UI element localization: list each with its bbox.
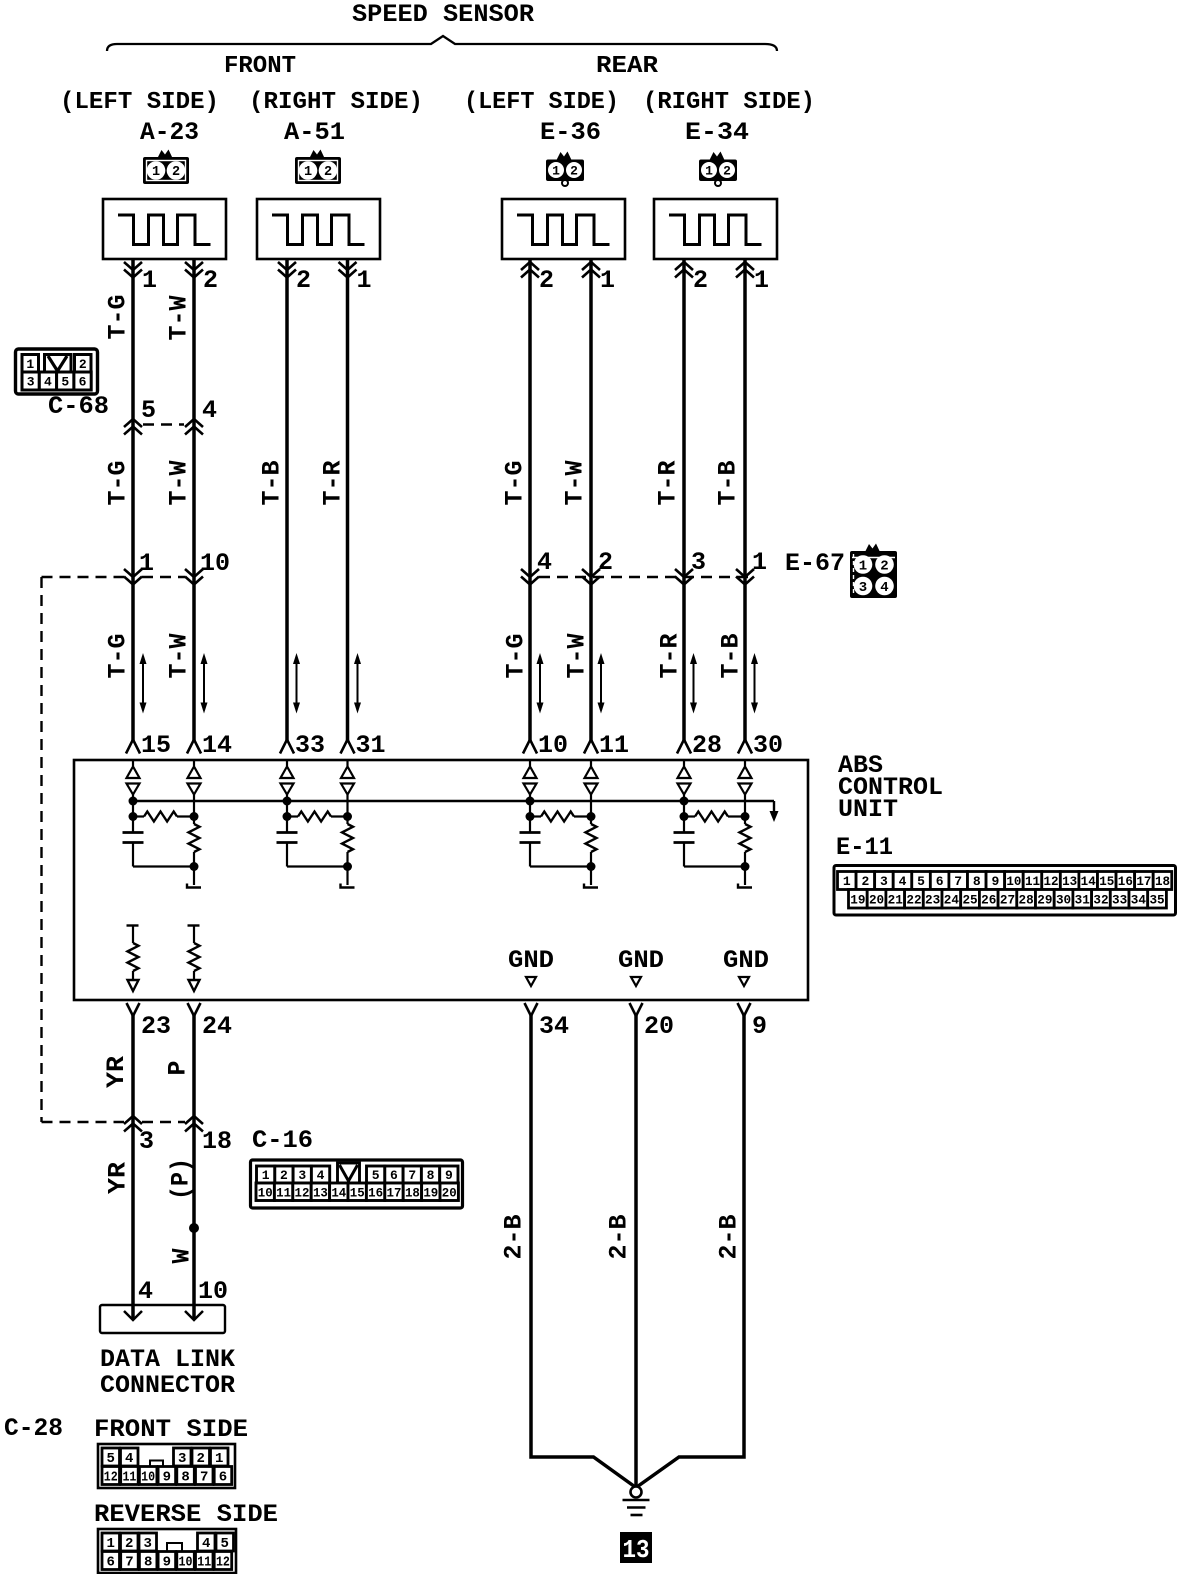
wire 2-B pin9 — [638, 1015, 745, 1487]
svg-text:2-B: 2-B — [500, 1215, 529, 1260]
svg-text:4: 4 — [138, 1277, 153, 1306]
svg-text:10: 10 — [179, 1555, 193, 1571]
ABS pin 23 exit fork — [127, 1003, 140, 1016]
ABS input triangles pair 2 — [286, 760, 288, 766]
svg-text:21: 21 — [888, 892, 903, 907]
ABS input triangles pair 4 — [683, 760, 685, 766]
svg-text:W: W — [168, 1249, 197, 1264]
pin arrow E-34 pin2 — [675, 262, 693, 270]
svg-text:9: 9 — [991, 874, 999, 889]
ground node — [631, 1487, 642, 1498]
svg-text:35: 35 — [1149, 892, 1164, 907]
svg-text:14: 14 — [331, 1185, 346, 1200]
svg-text:1: 1 — [754, 266, 769, 295]
connector icon E-36 — [557, 152, 572, 161]
svg-text:24: 24 — [944, 892, 959, 907]
svg-text:34: 34 — [1131, 892, 1146, 907]
svg-text:(RIGHT SIDE): (RIGHT SIDE) — [643, 89, 815, 116]
svg-text:7: 7 — [954, 874, 962, 889]
svg-text:4: 4 — [537, 548, 552, 577]
dashed vertical harness line — [40, 577, 42, 1122]
dashed link E-67 pins — [539, 576, 754, 578]
svg-text:9: 9 — [752, 1012, 767, 1041]
svg-text:1: 1 — [26, 357, 34, 372]
svg-text:16: 16 — [1118, 874, 1133, 889]
svg-text:7: 7 — [408, 1168, 416, 1183]
svg-text:1: 1 — [142, 266, 157, 295]
svg-text:4: 4 — [899, 874, 907, 889]
ABS filter capacitor pair 3 — [529, 817, 531, 833]
svg-text:5: 5 — [107, 1451, 115, 1467]
svg-text:19: 19 — [850, 892, 865, 907]
svg-text:8: 8 — [144, 1555, 152, 1571]
svg-text:T-B: T-B — [717, 634, 746, 679]
svg-text:11: 11 — [122, 1470, 136, 1486]
svg-text:5: 5 — [917, 874, 925, 889]
svg-text:YR: YR — [104, 1162, 133, 1194]
svg-text:2: 2 — [296, 266, 311, 295]
svg-text:E-67: E-67 — [785, 549, 845, 578]
svg-text:34: 34 — [539, 1012, 569, 1041]
svg-text:3: 3 — [178, 1451, 186, 1467]
ABS pin 30 entry fork — [738, 740, 752, 754]
svg-text:13: 13 — [1062, 874, 1077, 889]
svg-text:2: 2 — [203, 266, 218, 295]
svg-text:T-W: T-W — [165, 461, 194, 506]
svg-text:23: 23 — [925, 892, 940, 907]
svg-text:3: 3 — [139, 1127, 154, 1156]
svg-text:31: 31 — [1075, 892, 1090, 907]
svg-text:2: 2 — [880, 559, 888, 575]
svg-text:C-68: C-68 — [48, 392, 109, 421]
svg-text:26: 26 — [981, 892, 996, 907]
ABS pin 33 entry fork — [280, 740, 294, 754]
svg-text:15: 15 — [1099, 874, 1114, 889]
svg-text:33: 33 — [295, 731, 325, 760]
pin arrow A-51 pin2 — [278, 262, 296, 270]
junction chevron pin3 — [124, 1116, 142, 1124]
svg-text:12: 12 — [295, 1185, 310, 1200]
svg-text:T-B: T-B — [714, 461, 743, 506]
svg-text:12: 12 — [104, 1470, 118, 1486]
svg-text:11: 11 — [599, 731, 629, 760]
svg-text:E-36: E-36 — [540, 118, 601, 147]
svg-text:30: 30 — [1056, 892, 1071, 907]
ABS input triangles pair 3 — [529, 760, 531, 766]
svg-text:11: 11 — [197, 1555, 211, 1571]
svg-text:18: 18 — [405, 1185, 420, 1200]
ABS filter capacitor pair 4 — [683, 817, 685, 833]
svg-text:16: 16 — [368, 1185, 383, 1200]
ABS pin 9 exit fork — [738, 1003, 751, 1016]
svg-text:15: 15 — [141, 731, 171, 760]
svg-text:33: 33 — [1112, 892, 1127, 907]
svg-text:T-R: T-R — [656, 634, 685, 679]
ABS load resistor pair 4 — [744, 817, 746, 825]
arrow into DLC pin4 — [124, 1311, 142, 1320]
svg-text:8: 8 — [181, 1470, 189, 1486]
svg-text:17: 17 — [1136, 874, 1151, 889]
svg-text:P: P — [164, 1061, 193, 1076]
svg-text:2: 2 — [172, 165, 180, 180]
ABS pin 10 entry fork — [523, 740, 537, 754]
svg-text:2: 2 — [79, 357, 87, 372]
pin arrow E-36 pin2 — [521, 262, 539, 270]
svg-text:1: 1 — [552, 164, 560, 179]
svg-text:A-23: A-23 — [140, 118, 199, 147]
svg-text:4: 4 — [202, 396, 217, 425]
ground id 13 — [620, 1532, 652, 1563]
signal arrow 4 — [357, 661, 359, 706]
svg-text:3: 3 — [144, 1536, 152, 1552]
svg-text:CONNECTOR: CONNECTOR — [100, 1371, 235, 1400]
svg-text:A-51: A-51 — [284, 118, 345, 147]
junction chevrons pin5 front-left — [124, 419, 142, 427]
svg-text:6: 6 — [390, 1168, 398, 1183]
svg-text:5: 5 — [221, 1536, 229, 1552]
svg-text:T-W: T-W — [563, 634, 592, 679]
ABS filter resistor pair 1 — [129, 812, 138, 821]
svg-text:28: 28 — [1019, 892, 1034, 907]
svg-text:20: 20 — [869, 892, 884, 907]
pin arrow A-23 pin1 — [124, 262, 142, 270]
ABS network bottom link pair 3 — [530, 865, 591, 867]
ABS control unit box E-11 — [74, 760, 808, 1000]
junction chevron pin4 rear — [521, 569, 539, 577]
svg-text:SPEED SENSOR: SPEED SENSOR — [352, 0, 534, 29]
svg-text:14: 14 — [1081, 874, 1096, 889]
svg-text:REAR: REAR — [596, 53, 659, 80]
wire T-B front-right — [285, 259, 289, 741]
svg-text:13: 13 — [313, 1185, 328, 1200]
svg-text:GND: GND — [618, 946, 664, 975]
svg-text:12: 12 — [1044, 874, 1059, 889]
pin arrow A-23 pin2 — [185, 262, 203, 270]
svg-text:2: 2 — [125, 1536, 133, 1552]
svg-text:GND: GND — [508, 946, 554, 975]
svg-text:REVERSE SIDE: REVERSE SIDE — [94, 1500, 278, 1529]
ABS filter resistor pair 4 — [680, 812, 689, 821]
svg-text:3: 3 — [880, 874, 888, 889]
svg-text:28: 28 — [692, 731, 722, 760]
svg-text:4: 4 — [317, 1168, 325, 1183]
svg-text:9: 9 — [163, 1470, 171, 1486]
dashed line into C-16 row — [42, 1121, 125, 1123]
svg-text:1: 1 — [843, 874, 851, 889]
speed sensor front-left A-23 — [103, 199, 226, 259]
signal arrow 1 — [142, 661, 144, 706]
svg-text:3: 3 — [27, 375, 35, 390]
signal arrow 5 — [539, 661, 541, 706]
svg-text:T-G: T-G — [104, 295, 133, 340]
svg-text:(LEFT SIDE): (LEFT SIDE) — [60, 89, 219, 116]
svg-text:25: 25 — [962, 892, 977, 907]
svg-text:T-B: T-B — [258, 461, 287, 506]
svg-text:E-11: E-11 — [836, 833, 893, 862]
svg-text:32: 32 — [1093, 892, 1108, 907]
svg-text:2: 2 — [861, 874, 869, 889]
signal arrow 6 — [600, 661, 602, 706]
svg-text:20: 20 — [644, 1012, 674, 1041]
svg-text:7: 7 — [200, 1470, 208, 1486]
svg-text:5: 5 — [372, 1168, 380, 1183]
svg-text:FRONT: FRONT — [224, 53, 296, 80]
connector C-16 icon — [251, 1160, 463, 1208]
connector C-68 icon — [16, 349, 98, 394]
svg-text:2-B: 2-B — [715, 1215, 744, 1260]
svg-text:11: 11 — [1025, 874, 1040, 889]
svg-text:7: 7 — [125, 1555, 133, 1571]
svg-text:3: 3 — [298, 1168, 306, 1183]
ABS pin 20 exit fork — [630, 1003, 643, 1016]
svg-text:1: 1 — [859, 559, 867, 575]
bracket over sensor group — [107, 36, 777, 51]
svg-text:10: 10 — [1006, 874, 1021, 889]
wire T-W front-left — [192, 259, 196, 741]
svg-text:1: 1 — [304, 165, 312, 180]
svg-text:9: 9 — [163, 1555, 171, 1571]
svg-text:UNIT: UNIT — [838, 795, 898, 824]
svg-text:2: 2 — [570, 164, 578, 179]
connector E-67 icon — [865, 544, 880, 553]
svg-text:11: 11 — [276, 1185, 291, 1200]
wire splice dot — [189, 1223, 199, 1233]
ABS bus junction dot pair 4 — [680, 797, 689, 806]
svg-text:30: 30 — [753, 731, 783, 760]
svg-text:T-G: T-G — [104, 634, 133, 679]
svg-text:4: 4 — [202, 1536, 210, 1552]
signal arrow 8 — [754, 661, 756, 706]
ABS filter resistor pair 3 — [526, 812, 535, 821]
svg-text:9: 9 — [445, 1168, 453, 1183]
svg-text:C-16: C-16 — [252, 1126, 313, 1155]
wire T-B rear-right — [743, 258, 747, 741]
connector icon E-34 — [710, 152, 725, 161]
ABS pin 28 entry fork — [677, 740, 691, 754]
svg-text:6: 6 — [219, 1470, 227, 1486]
svg-text:1: 1 — [215, 1451, 223, 1467]
ABS bus junction dot pair 3 — [526, 797, 535, 806]
svg-text:C-28: C-28 — [4, 1414, 63, 1443]
svg-text:20: 20 — [442, 1185, 457, 1200]
svg-text:10: 10 — [198, 1277, 228, 1306]
pin arrow A-51 pin1 — [339, 262, 357, 270]
junction chevron pin10 front-left — [185, 569, 203, 577]
connector icon A-51 — [310, 150, 325, 159]
ABS pull resistor 1 — [127, 924, 139, 926]
ABS load resistor pair 2 — [346, 817, 348, 825]
ABS filter capacitor pair 1 — [132, 817, 134, 833]
svg-text:13: 13 — [623, 1535, 650, 1565]
wire T-W rear-left — [589, 258, 593, 741]
svg-text:4: 4 — [125, 1451, 133, 1467]
ABS pull resistor 2 — [188, 924, 200, 926]
svg-text:27: 27 — [1000, 892, 1015, 907]
svg-text:24: 24 — [202, 1012, 232, 1041]
svg-text:2: 2 — [324, 165, 332, 180]
ABS bus junction dot pair 1 — [129, 797, 138, 806]
pin arrow E-36 pin1 — [582, 262, 600, 270]
ABS input triangles pair 1 — [132, 760, 134, 766]
dashed link C-68 pins — [143, 423, 184, 425]
junction chevron pin1 front-left — [124, 569, 142, 577]
svg-text:2: 2 — [598, 548, 613, 577]
svg-text:1: 1 — [357, 266, 372, 295]
svg-text:2: 2 — [280, 1168, 288, 1183]
svg-text:29: 29 — [1037, 892, 1052, 907]
svg-text:T-G: T-G — [501, 461, 530, 506]
svg-text:DATA LINK: DATA LINK — [100, 1345, 235, 1374]
junction chevron pin1 rear — [736, 569, 754, 577]
svg-text:E-34: E-34 — [685, 118, 749, 147]
svg-text:6: 6 — [936, 874, 944, 889]
svg-text:10: 10 — [141, 1470, 155, 1486]
connector C-28 reverse side — [98, 1529, 236, 1573]
junction chevrons pin4 front-left — [185, 419, 203, 427]
ABS load resistor pair 1 — [193, 817, 195, 825]
svg-text:FRONT SIDE: FRONT SIDE — [94, 1415, 248, 1444]
svg-text:1: 1 — [752, 548, 767, 577]
svg-text:10: 10 — [258, 1185, 273, 1200]
wire 2-B pin34 — [531, 1015, 635, 1487]
ABS pin 34 exit fork — [525, 1003, 538, 1016]
svg-text:12: 12 — [216, 1555, 230, 1571]
svg-text:(RIGHT SIDE): (RIGHT SIDE) — [249, 89, 423, 116]
svg-text:19: 19 — [423, 1185, 438, 1200]
arrow into DLC pin10 — [185, 1311, 203, 1320]
ABS pin 31 entry fork — [341, 740, 355, 754]
junction chevron pin3 rear — [675, 569, 693, 577]
svg-text:31: 31 — [356, 731, 386, 760]
svg-text:2: 2 — [723, 164, 731, 179]
svg-text:1: 1 — [262, 1168, 270, 1183]
wire T-R rear-right — [682, 258, 686, 741]
svg-text:2: 2 — [693, 266, 708, 295]
svg-text:4: 4 — [880, 580, 888, 596]
signal arrow 3 — [296, 661, 298, 706]
signal arrow 7 — [693, 661, 695, 706]
svg-text:6: 6 — [107, 1555, 115, 1571]
svg-text:10: 10 — [538, 731, 568, 760]
svg-text:22: 22 — [906, 892, 921, 907]
svg-text:2: 2 — [197, 1451, 205, 1467]
svg-text:YR: YR — [102, 1056, 131, 1088]
pin arrow E-34 pin1 — [736, 262, 754, 270]
svg-text:2: 2 — [539, 266, 554, 295]
svg-text:T-R: T-R — [654, 461, 683, 506]
svg-text:5: 5 — [61, 375, 69, 390]
svg-text:T-G: T-G — [502, 634, 531, 679]
data link connector box — [100, 1305, 225, 1333]
svg-text:GND: GND — [723, 946, 769, 975]
junction chevron pin2 rear — [582, 569, 600, 577]
speed sensor rear-right E-34 — [654, 199, 777, 259]
svg-text:1: 1 — [139, 549, 154, 578]
svg-text:18: 18 — [1155, 874, 1170, 889]
svg-text:10: 10 — [200, 549, 230, 578]
svg-text:8: 8 — [427, 1168, 435, 1183]
dashed line to harness left — [42, 576, 125, 578]
svg-text:1: 1 — [600, 266, 615, 295]
svg-text:(LEFT SIDE): (LEFT SIDE) — [464, 89, 619, 116]
connector icon A-23 — [158, 150, 173, 159]
junction chevron pin18 — [185, 1116, 203, 1124]
svg-text:8: 8 — [973, 874, 981, 889]
svg-text:T-G: T-G — [104, 461, 133, 506]
wire YR below ABS — [131, 1015, 135, 1319]
svg-text:15: 15 — [350, 1185, 365, 1200]
speed sensor front-right A-51 — [257, 199, 380, 259]
ABS network bottom link pair 1 — [133, 865, 194, 867]
ABS network bottom link pair 2 — [287, 865, 348, 867]
svg-text:5: 5 — [141, 396, 156, 425]
svg-text:18: 18 — [202, 1127, 232, 1156]
svg-text:(P): (P) — [167, 1158, 196, 1200]
wire T-G rear-left — [528, 258, 532, 741]
ABS pin 24 exit fork — [188, 1003, 201, 1016]
wire T-G front-left — [131, 259, 135, 741]
svg-text:4: 4 — [44, 375, 52, 390]
ground symbol — [623, 1499, 650, 1502]
wire 2-B pin20 — [634, 1015, 638, 1487]
ABS filter capacitor pair 2 — [286, 817, 288, 833]
ABS internal bus line — [133, 800, 774, 802]
svg-text:T-W: T-W — [165, 634, 194, 679]
signal arrow 2 — [203, 661, 205, 706]
svg-text:3: 3 — [691, 548, 706, 577]
speed sensor rear-left E-36 — [502, 199, 625, 259]
ABS pin 15 entry fork — [126, 740, 140, 754]
wire P below ABS — [192, 1015, 196, 1319]
connector C-28 front side — [98, 1444, 235, 1488]
svg-text:1: 1 — [705, 164, 713, 179]
wire T-R front-right — [346, 259, 350, 741]
svg-text:T-W: T-W — [561, 461, 590, 506]
svg-text:3: 3 — [859, 580, 867, 596]
ABS filter resistor pair 2 — [283, 812, 292, 821]
svg-text:23: 23 — [141, 1012, 171, 1041]
svg-text:1: 1 — [107, 1536, 115, 1552]
ABS pin 14 entry fork — [187, 740, 201, 754]
ABS network bottom link pair 4 — [684, 865, 745, 867]
svg-text:2-B: 2-B — [605, 1215, 634, 1260]
ABS bus junction dot pair 2 — [283, 797, 292, 806]
svg-text:6: 6 — [79, 375, 87, 390]
connector E-11 icon — [834, 866, 1176, 916]
svg-text:17: 17 — [387, 1185, 402, 1200]
svg-text:T-W: T-W — [165, 296, 194, 341]
svg-text:1: 1 — [152, 165, 160, 180]
svg-text:T-R: T-R — [319, 461, 348, 506]
ABS load resistor pair 3 — [590, 817, 592, 825]
ABS pin 11 entry fork — [584, 740, 598, 754]
svg-text:14: 14 — [202, 731, 232, 760]
